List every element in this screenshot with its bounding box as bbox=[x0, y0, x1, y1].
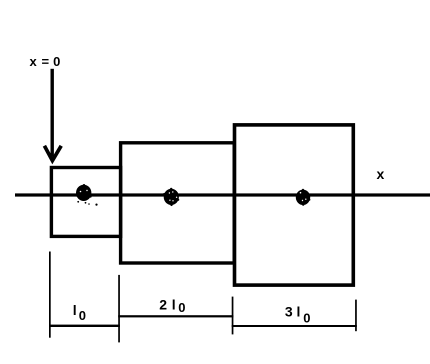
block 2 (middle square) bbox=[121, 143, 235, 263]
svg-text:0: 0 bbox=[178, 300, 185, 315]
dimension line segment 3 bbox=[232, 325, 357, 327]
block 3 (largest square) bbox=[235, 125, 354, 285]
dimension line segment 2 bbox=[118, 315, 233, 317]
svg-text:2: 2 bbox=[159, 296, 167, 312]
label l0 bbox=[73, 302, 86, 323]
arrow x=0 head bbox=[44, 146, 61, 161]
center-of-mass dot 2 bbox=[163, 188, 179, 206]
x-axis line bbox=[15, 193, 430, 196]
svg-text:l: l bbox=[297, 304, 301, 320]
svg-text:l: l bbox=[73, 302, 77, 318]
dimension tick 1 bbox=[49, 252, 51, 338]
dimension tick 2 bbox=[118, 275, 120, 343]
svg-text:x: x bbox=[30, 54, 38, 69]
arrow x=0 shaft bbox=[51, 69, 54, 157]
dimension tick 3 bbox=[232, 297, 234, 335]
center-of-mass dot 3 bbox=[296, 189, 311, 206]
label 3 l0 bbox=[285, 304, 311, 326]
svg-text:x: x bbox=[377, 166, 385, 182]
dimension tick 4 bbox=[355, 300, 357, 332]
svg-text:=: = bbox=[42, 54, 50, 69]
svg-text:0: 0 bbox=[303, 310, 310, 325]
dimension line segment 1 bbox=[49, 325, 120, 327]
svg-text:0: 0 bbox=[53, 54, 60, 69]
svg-text:3: 3 bbox=[285, 304, 293, 320]
label 2 l0 bbox=[159, 296, 185, 315]
svg-text:0: 0 bbox=[79, 308, 86, 323]
svg-text:l: l bbox=[172, 296, 176, 312]
label x = 0 bbox=[30, 54, 61, 69]
center-of-mass dot 1 bbox=[76, 184, 98, 206]
block 1 (smallest square) bbox=[51, 168, 120, 237]
